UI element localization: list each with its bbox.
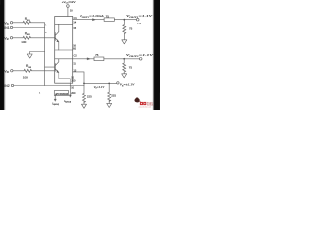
svg-text:200: 200	[71, 79, 76, 82]
svg-text:IN2: IN2	[4, 84, 9, 88]
svg-text:75: 75	[106, 15, 110, 19]
svg-text:75: 75	[95, 53, 99, 57]
svg-text:IN1: IN1	[4, 26, 9, 30]
svg-text:75: 75	[129, 26, 133, 30]
svg-text:发烧友: 发烧友	[147, 101, 154, 106]
svg-text:www.elecfans.com: www.elecfans.com	[139, 107, 152, 109]
svg-text:1.1V: 1.1V	[137, 23, 142, 25]
svg-text:100: 100	[21, 40, 26, 44]
svg-text:225: 225	[87, 95, 92, 99]
svg-text:200: 200	[71, 92, 76, 95]
svg-text:100: 100	[23, 75, 28, 79]
svg-text:75: 75	[129, 66, 133, 70]
svg-text:μPC1031H2: μPC1031H2	[55, 92, 68, 96]
svg-text:225: 225	[111, 94, 116, 98]
